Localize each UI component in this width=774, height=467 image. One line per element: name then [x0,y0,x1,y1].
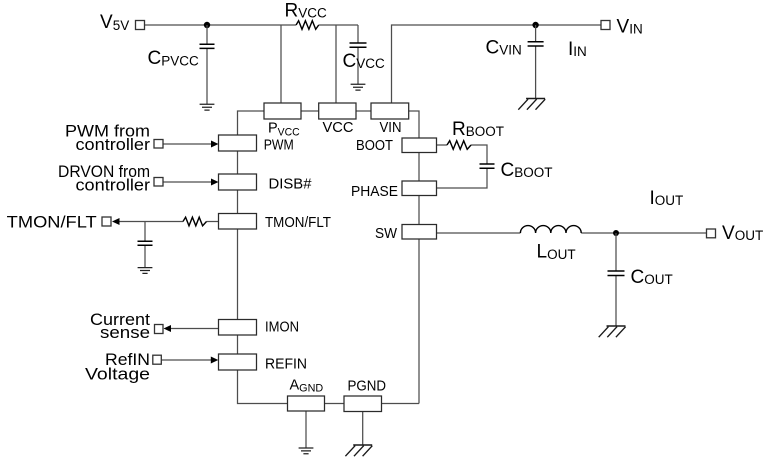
wire AGND-PGND [325,403,345,405]
svg-text:PVCC: PVCC [268,120,300,138]
resistor R_BOOT [447,141,471,150]
svg-text:CVCC: CVCC [343,51,385,72]
svg-text:CBOOT: CBOOT [501,160,553,181]
wire SW to L_OUT [437,232,521,234]
resistor R_VCC [296,21,319,30]
wire REFIN to AGND [238,370,288,404]
wire riser to PVCC pin [280,25,282,103]
pin box VCC [319,103,356,119]
wire C_OUT bottom [615,276,617,327]
pin box PHASE [402,181,437,196]
wire DISB#-TMON/FLT [237,190,239,214]
wire C_VIN top [535,25,537,42]
wire SW column down to PGND [418,239,420,404]
wire TMON filter cap top [144,222,146,242]
pin box DISB# [219,174,257,190]
terminal IMON output [155,325,164,334]
capacitor C_VIN [528,42,544,46]
wire IMON-REFIN [237,335,239,354]
ground chassis C_VIN [518,99,545,110]
ground earth TMON cap [138,268,153,274]
wire after R_VCC to C_VCC [319,24,358,26]
svg-text:PGND: PGND [348,379,387,395]
terminal V5V [136,21,145,30]
svg-text:DISB#: DISB# [269,177,312,193]
pin box BOOT [402,138,437,153]
wire PWM-DISB# [237,151,239,174]
wire R_TMON to TMON/FLT pin [207,221,219,223]
wire PHASE-SW [418,196,420,225]
wire riser to VCC pin [335,25,337,103]
wire C_PVCC top [206,25,208,44]
arrow into DISB# [211,179,219,186]
capacitor TMON filter [138,241,153,245]
ground chassis C_OUT [599,326,626,337]
wire BOOT-PHASE [418,153,420,182]
inductor L_OUT [520,226,581,233]
wire VIN rail [392,25,602,103]
arrow into REFIN [211,357,219,364]
wire R_BOOT to C_BOOT [471,145,487,164]
wire C_VCC top [357,25,359,43]
svg-text:PWM: PWM [264,138,294,154]
svg-text:LOUT: LOUT [537,242,576,263]
wire IMON output line [171,328,219,330]
wire VIN to BOOT column [409,111,419,138]
wire L_OUT to VOUT terminal [581,232,706,234]
svg-text:AGND: AGND [290,378,324,395]
terminal DRVON input [154,178,163,187]
svg-text:REFIN: REFIN [265,357,307,373]
arrow out IMON [164,325,172,332]
pin box REFIN [219,354,257,370]
node junction VOUT/C_OUT [613,230,619,236]
svg-text:VIN: VIN [380,120,402,136]
pin box VIN [371,103,409,119]
arrow out TMON/FLT [112,218,120,225]
svg-text:COUT: COUT [631,267,673,288]
wire PVCC-VCC [301,110,319,112]
pin box PWM [219,135,257,151]
svg-text:Voltage: Voltage [85,365,150,384]
pin box IMON [219,320,257,336]
svg-text:TMON/FLT: TMON/FLT [265,215,331,231]
terminal TMON/FLT output [102,217,111,226]
terminal REFIN input [153,355,162,364]
wire TMON filter cap bottom [144,245,146,267]
arrow into PWM [211,141,219,148]
wire BOOT to R_BOOT [437,144,448,146]
svg-text:IMON: IMON [265,320,299,336]
wire PVCC pin to left column [238,111,265,135]
node junction VIN/C_VIN [532,22,538,28]
svg-text:IIN: IIN [568,39,587,60]
terminal PWM input [154,140,163,149]
svg-text:IOUT: IOUT [650,188,684,209]
wire PGND to ground [362,412,364,446]
svg-text:RBOOT: RBOOT [452,119,504,140]
svg-text:controller: controller [76,135,151,154]
svg-text:BOOT: BOOT [356,138,393,154]
pin box TMON/FLT [219,214,257,230]
wire AGND to ground [305,411,307,448]
pin box SW [402,225,437,240]
wire C_OUT top [615,233,617,271]
ground earth AGND [299,448,314,454]
wire C_VIN bottom [535,46,537,99]
wire V5V rail [145,24,297,26]
wire VCC-VIN [356,110,371,112]
svg-text:VOUT: VOUT [722,223,763,244]
pin box AGND [288,396,325,411]
svg-text:CVIN: CVIN [486,38,522,59]
wire TMON/FLT output line [119,221,184,223]
svg-text:V5V: V5V [100,12,129,33]
ground earth C_PVCC [200,104,215,110]
svg-text:PHASE: PHASE [351,184,398,200]
wire DRVON input arrow line [163,181,212,183]
wire C_VCC bottom [357,47,359,84]
svg-text:CPVCC: CPVCC [148,48,199,69]
ground chassis PGND [345,445,372,456]
svg-text:VIN: VIN [617,17,643,38]
svg-text:VCC: VCC [323,120,354,136]
node junction V5V/C_PVCC [204,22,210,28]
capacitor C_VCC [350,43,367,47]
wire TMON/FLT-IMON [237,229,239,320]
capacitor C_PVCC [200,44,215,48]
terminal VIN [601,21,610,30]
pin box PGND [344,396,382,412]
wire PGND to right column [382,403,420,405]
wire PWM input arrow line [163,143,212,145]
svg-text:controller: controller [76,176,151,195]
wire REFIN input line [161,359,212,361]
wire C_BOOT to PHASE [437,168,488,188]
svg-text:TMON/FLT: TMON/FLT [7,213,97,232]
capacitor C_BOOT [480,164,495,168]
svg-text:RVCC: RVCC [285,1,327,22]
wire C_PVCC bottom [206,48,208,104]
svg-text:sense: sense [100,323,150,342]
terminal VOUT [707,229,716,238]
resistor R_TMON [183,217,207,226]
svg-text:SW: SW [375,226,397,242]
pin box PVCC [264,103,301,119]
ground earth C_VCC [351,84,366,90]
capacitor C_OUT [608,271,625,276]
